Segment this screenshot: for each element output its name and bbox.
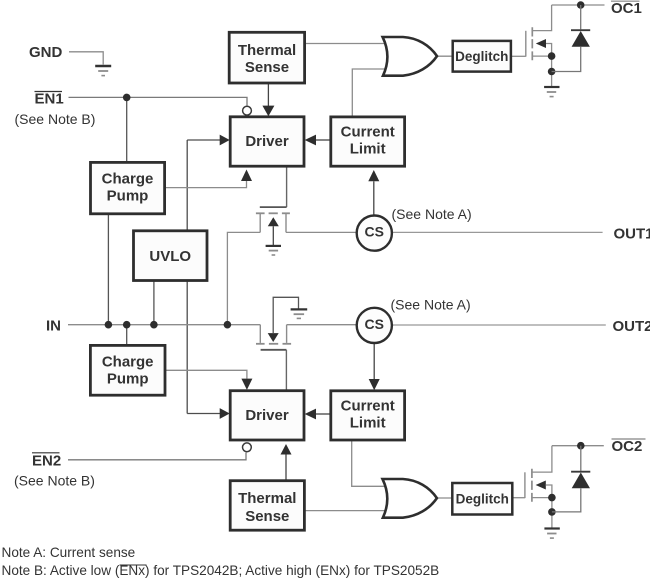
svg-text:CS: CS [364, 316, 383, 332]
svg-text:Pump: Pump [107, 371, 149, 388]
wire thermal sense 1 down to driver 1 [267, 83, 269, 106]
wire EN1 to driver bubble [69, 97, 248, 105]
wire EN2 to driver 2 bubble [68, 453, 246, 460]
ground M1 body [266, 246, 281, 255]
wire OC2 top rail [552, 445, 604, 447]
node Q2 source junction [548, 494, 556, 502]
wire current limit 1 to driver 1 [316, 139, 331, 141]
wire OUT1 rail [392, 231, 603, 233]
svg-text:Note A: Current sense: Note A: Current sense [2, 545, 136, 560]
block U7 UVLO [134, 231, 208, 281]
block U11 Thermal Sense 2 [230, 481, 304, 531]
wire OR gate 1 to Deglitch 1 [436, 55, 453, 57]
svg-text:(See Note A): (See Note A) [391, 296, 471, 312]
wire charge pump 1 to driver 1 [165, 181, 247, 188]
wire CS2 to current limit 2 [373, 343, 375, 379]
svg-text:Driver: Driver [245, 133, 289, 150]
svg-text:CS: CS [364, 224, 383, 240]
ground Q1 [544, 87, 559, 97]
svg-text:Deglitch: Deglitch [455, 49, 508, 64]
wire IN branch to charge pump 1 [107, 214, 109, 325]
block U12 Deglitch 1 [453, 41, 511, 72]
wire IN rail [68, 324, 260, 326]
wire charge pump 2 to driver 2 [165, 370, 247, 379]
node Q1 ground junction [548, 68, 556, 76]
svg-text:Thermal: Thermal [238, 42, 296, 59]
note B text [2, 563, 440, 578]
block U5 Current Limit 1 [331, 117, 405, 166]
wire UVLO to driver 2 [187, 413, 220, 415]
node EN1 junction [123, 94, 131, 102]
svg-text:Limit: Limit [350, 414, 386, 431]
node EN1 inverter bubble on driver 1 [243, 106, 252, 115]
wire current limit 2 to driver 2 [316, 413, 331, 415]
wire IN branch up to pass FET M1 [227, 232, 260, 324]
block U9 Driver 2 [230, 391, 304, 440]
svg-text:Current: Current [341, 123, 395, 140]
svg-text:OUT1: OUT1 [614, 226, 650, 243]
pin OC2 label with overline [612, 438, 646, 455]
block U8 Charge Pump 2 [90, 345, 165, 395]
wire CS1 to current limit 1 [373, 181, 375, 215]
node IN junction 2 [123, 321, 131, 329]
block U13 Deglitch 2 [452, 483, 512, 515]
node IN junction 3 [150, 321, 158, 329]
svg-text:(See Note A): (See Note A) [392, 206, 472, 222]
node OC2 junction [577, 442, 585, 450]
svg-text:GND: GND [29, 44, 63, 61]
svg-text:Note B: Active low (ENx) for T: Note B: Active low (ENx) for TPS2042B; A… [2, 563, 440, 578]
wire OC1 top rail [552, 4, 605, 6]
node Q2 ground junction [548, 508, 556, 516]
ground Q2 [544, 529, 559, 539]
svg-text:Thermal: Thermal [238, 490, 296, 507]
block U6 Charge Pump 1 [91, 162, 165, 213]
op-amp U2 OR gate 2 [383, 479, 437, 518]
svg-text:OC2: OC2 [612, 438, 643, 455]
transistor Q2 OC2 sense FET [525, 446, 552, 528]
wire M2 to CS2 [287, 324, 357, 326]
wire GND lead [69, 52, 103, 65]
svg-text:IN: IN [46, 318, 61, 335]
svg-text:(See Note B): (See Note B) [14, 473, 95, 489]
node OC1 junction [577, 1, 585, 9]
ground M2 body [291, 309, 308, 318]
block U4 Driver 1 [230, 117, 304, 166]
pin OC1 label with overline [611, 0, 642, 17]
wire OR gate 2 to Deglitch 2 [436, 497, 452, 499]
wire thermal sense 2 to OR gate 2 [304, 510, 388, 512]
wire IN branch to charge pump 2 [126, 325, 128, 346]
node IN junction 1 [105, 321, 113, 329]
svg-text:OC1: OC1 [611, 0, 642, 17]
node IN junction 4 [224, 321, 232, 329]
svg-text:Current: Current [341, 397, 395, 414]
wire EN1 branch down to charge pump 1 [126, 97, 128, 163]
wire OUT2 rail [392, 324, 606, 326]
svg-text:Sense: Sense [245, 508, 289, 525]
pin EN1 label with overline [35, 91, 64, 108]
pin EN2 label with overline [32, 453, 61, 470]
svg-text:Charge: Charge [102, 171, 154, 188]
ground GND pin symbol [95, 66, 111, 76]
wire M1 to CS1 [286, 231, 357, 233]
wire current limit 2 to OR gate 2 [352, 440, 388, 486]
op-amp U1 OR gate 1 [383, 37, 437, 76]
wire current limit 1 to OR gate 1 [352, 69, 390, 117]
wire thermal sense 2 up to driver 2 [285, 455, 287, 481]
diode D1 [552, 5, 591, 72]
node CS1 current sense circle [357, 216, 392, 251]
svg-text:Deglitch: Deglitch [456, 492, 509, 507]
svg-text:OUT2: OUT2 [613, 318, 650, 335]
wire IN branch to UVLO [153, 281, 155, 325]
svg-text:EN1: EN1 [35, 91, 64, 108]
svg-text:(See Note B): (See Note B) [15, 111, 96, 127]
svg-text:Driver: Driver [245, 407, 289, 424]
diode D2 [552, 446, 590, 512]
transistor Q1 OC1 sense FET [526, 5, 552, 87]
wire UVLO to driver 1 [187, 139, 220, 141]
wire UVLO vertical bus [186, 140, 188, 414]
svg-text:Limit: Limit [350, 141, 386, 158]
wire Deglitch 1 to Q1 gate [511, 55, 526, 57]
block U3 Thermal Sense 1 [229, 32, 304, 83]
svg-text:UVLO: UVLO [149, 248, 191, 265]
node CS2 current sense circle [357, 308, 392, 343]
transistor M1 pass FET channel 1 [256, 166, 290, 245]
svg-text:EN2: EN2 [32, 453, 61, 470]
node EN2 inverter bubble on driver 2 [243, 443, 252, 452]
svg-text:Sense: Sense [245, 59, 289, 76]
node Q1 source junction [548, 52, 556, 60]
svg-text:Charge: Charge [102, 353, 154, 370]
block U10 Current Limit 2 [331, 391, 405, 440]
svg-text:Pump: Pump [107, 188, 149, 205]
wire Deglitch 2 to Q2 gate [512, 497, 525, 499]
transistor M2 pass FET channel 2 [256, 297, 299, 391]
wire thermal sense 1 to OR gate 1 [305, 43, 390, 45]
